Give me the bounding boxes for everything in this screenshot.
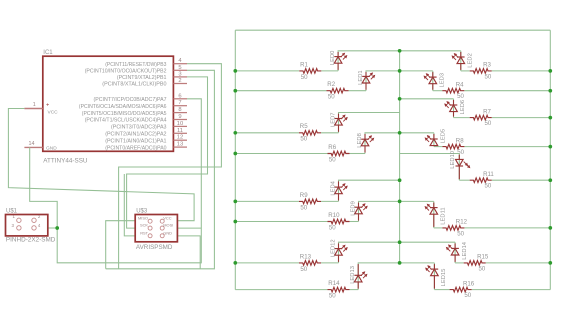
svg-text:(PCINT3/T0/ADC3)PA3: (PCINT3/T0/ADC3)PA3 — [111, 125, 167, 131]
LED LED3 — [429, 77, 437, 84]
junction on left bus at y=153.5 — [233, 152, 237, 156]
svg-text:R16: R16 — [463, 280, 475, 287]
pin 2 stub — [173, 83, 187, 85]
svg-text:LED7: LED7 — [330, 112, 336, 127]
LED LED0 — [334, 57, 342, 64]
svg-text:3: 3 — [178, 71, 181, 77]
wire LED2 vertical — [460, 51, 462, 71]
svg-text:PINHD-2X2-SMD: PINHD-2X2-SMD — [6, 237, 56, 244]
svg-text:R11: R11 — [483, 171, 494, 178]
svg-text:LED9: LED9 — [350, 201, 356, 216]
svg-text:(PCINT10/INT0/OC0A/CKOUT)PB2: (PCINT10/INT0/OC0A/CKOUT)PB2 — [85, 69, 167, 75]
junction on center bus at y=98.8 — [398, 97, 402, 101]
wire LED12 top to bus — [339, 242, 400, 263]
svg-text:LED4: LED4 — [330, 180, 336, 195]
svg-text:LED13: LED13 — [350, 266, 356, 284]
svg-text:50: 50 — [300, 266, 307, 273]
wire R11 to right bus — [492, 179, 551, 181]
junction on left bus at y=262.9 — [233, 261, 237, 265]
junction on right bus at y=70.9 — [548, 69, 552, 73]
pin 4 stub — [173, 63, 187, 65]
svg-text:11: 11 — [177, 128, 183, 134]
svg-text:7: 7 — [178, 100, 181, 106]
svg-text:LED1: LED1 — [358, 70, 364, 85]
wire LED10 to R11 — [459, 179, 469, 181]
svg-text:50: 50 — [485, 120, 492, 127]
wire LED15 vertical — [433, 263, 435, 290]
wire GND / pin6 net — [30, 99, 202, 263]
wire LED3 vertical — [432, 71, 434, 91]
svg-text:LED6: LED6 — [460, 100, 466, 115]
wire pin3 to SCK — [127, 77, 208, 228]
op-amp/IC U1: IC1 ATTINY44-SSU box — [43, 56, 174, 151]
junction on left bus at y=90.7 — [233, 89, 237, 93]
LED LED9 — [355, 207, 363, 214]
wire R2 to LED1 — [349, 90, 367, 92]
svg-text:50: 50 — [300, 136, 307, 143]
resistor R10 — [328, 219, 350, 224]
resistor R12 — [442, 226, 464, 231]
pin 14 GND stub — [24, 146, 42, 148]
junction on left bus at y=70.9 — [233, 69, 237, 73]
resistor R3 — [470, 69, 492, 74]
svg-text:50: 50 — [457, 93, 464, 100]
wire LED1 top to bus — [366, 71, 400, 91]
wire center bus — [399, 51, 401, 263]
wire pin4 net — [119, 64, 222, 269]
svg-text:R8: R8 — [456, 137, 464, 144]
LED LED14 — [451, 248, 459, 255]
wire GND row right — [177, 236, 200, 269]
wire R13 to LED12 — [321, 262, 339, 264]
svg-text:(PCINT9/XTAL2)PB1: (PCINT9/XTAL2)PB1 — [117, 75, 167, 81]
connector U$3 AVRISPSMD — [135, 215, 177, 242]
svg-text:LED14: LED14 — [462, 241, 468, 260]
LED LED8 — [361, 139, 369, 146]
svg-text:LED11: LED11 — [441, 207, 447, 224]
svg-text:SCK: SCK — [140, 223, 148, 228]
pin 6 stub — [173, 98, 187, 100]
svg-text:LED8: LED8 — [357, 133, 363, 148]
svg-text:VCC: VCC — [163, 215, 171, 220]
svg-text:R10: R10 — [328, 212, 340, 219]
LED LED6 — [450, 105, 458, 112]
svg-text:GND: GND — [46, 146, 57, 152]
svg-text:R14: R14 — [328, 280, 340, 287]
wire LED4 top to bus — [339, 180, 400, 201]
wire feed to LED15 — [400, 262, 435, 264]
svg-text:5: 5 — [178, 65, 181, 71]
wire R4 to right bus — [464, 90, 550, 92]
svg-text:50: 50 — [464, 292, 471, 299]
svg-text:LED5: LED5 — [441, 129, 447, 144]
wire feed to LED5 — [400, 132, 434, 134]
svg-text:(PCINT1/AIN0/ADC1)PA1: (PCINT1/AIN0/ADC1)PA1 — [105, 138, 166, 144]
junction on left bus at y=201.4 — [233, 200, 237, 204]
junction on right bus at y=146.6 — [548, 145, 552, 149]
wire LED14 vertical — [454, 242, 456, 263]
wire RST stub — [124, 174, 135, 236]
wire MOSI stub — [177, 227, 201, 229]
resistor R4 — [442, 88, 464, 93]
wire LED14 to R15 — [455, 262, 464, 264]
wire LED0 top to bus — [338, 51, 400, 71]
junction on right bus at y=117.6 — [548, 116, 552, 120]
junction on right bus at y=262.9 — [548, 261, 552, 265]
resistor R16 — [450, 287, 472, 292]
svg-text:IC1: IC1 — [43, 50, 53, 56]
svg-text:R2: R2 — [327, 81, 335, 88]
LED LED7 — [335, 119, 343, 126]
svg-text:(PCINT7/ICP/OC0B/ADC7)PA7: (PCINT7/ICP/OC0B/ADC7)PA7 — [94, 97, 167, 103]
junction on center bus at y=70.9 — [398, 69, 402, 73]
resistor R8 — [442, 144, 464, 149]
junction on center bus at y=50.8 — [398, 49, 402, 53]
LED LED1 — [362, 76, 370, 83]
wire R16 to right bus — [472, 289, 551, 291]
svg-text:2: 2 — [178, 78, 181, 84]
svg-text:R7: R7 — [483, 108, 491, 115]
svg-text:50: 50 — [457, 149, 464, 156]
wire U$1 pin4 — [48, 227, 57, 229]
LED LED13 — [354, 275, 362, 282]
wire feed to LED14 — [400, 241, 456, 243]
wire R12 to right bus — [464, 227, 550, 229]
pin 5 stub — [173, 69, 187, 71]
svg-text:(PCINT6/OC1A/SDA/MOSI/ADC6)PA6: (PCINT6/OC1A/SDA/MOSI/ADC6)PA6 — [79, 104, 167, 110]
pin 7 stub — [173, 105, 187, 107]
wire top bus — [235, 29, 550, 31]
connector U$1 PINHD-2X2-SMD — [6, 215, 48, 236]
wire LED15 to R16 — [434, 289, 449, 291]
svg-text:1: 1 — [33, 102, 36, 108]
svg-text:LED12: LED12 — [330, 239, 336, 257]
wire row R14 — [235, 289, 327, 291]
resistor R2 — [327, 88, 349, 93]
junction on left bus at y=221.5 — [233, 220, 237, 224]
wire LED10 vertical — [458, 154, 460, 181]
pin 13 stub — [173, 146, 187, 148]
wire row R5 — [235, 132, 299, 134]
junction on right bus at y=227.9 — [548, 226, 552, 230]
LED LED2 — [457, 57, 465, 64]
LED LED10 (flipped) — [456, 159, 464, 166]
svg-text:LED10: LED10 — [450, 151, 456, 169]
svg-text:MISO: MISO — [138, 215, 148, 220]
svg-text:(PCINT11/RESET/DW)PB3: (PCINT11/RESET/DW)PB3 — [105, 62, 167, 68]
resistor R14 — [328, 287, 350, 292]
svg-text:50: 50 — [328, 94, 335, 101]
wire row R13 — [235, 262, 299, 264]
resistor R13 — [299, 261, 321, 266]
wire row R9 — [235, 200, 299, 202]
wire row R1 — [235, 70, 299, 72]
svg-text:GND: GND — [163, 230, 172, 235]
svg-text:9: 9 — [178, 114, 181, 120]
svg-text:6: 6 — [178, 93, 181, 99]
resistor R5 — [299, 131, 321, 136]
svg-text:50: 50 — [479, 265, 486, 272]
svg-text:LED15: LED15 — [441, 269, 447, 287]
wire VCC net — [8, 109, 194, 221]
svg-text:50: 50 — [485, 183, 492, 190]
wire feed to LED2 — [400, 50, 461, 52]
pin 11 stub — [173, 132, 187, 134]
svg-text:50: 50 — [485, 73, 492, 80]
svg-text:8: 8 — [178, 107, 181, 113]
wire R15 to right bus — [486, 262, 551, 264]
svg-text:13: 13 — [177, 142, 183, 148]
resistor R6 — [328, 151, 350, 156]
pin 9 stub — [173, 119, 187, 121]
svg-text:MOSI: MOSI — [163, 223, 173, 228]
svg-text:R1: R1 — [300, 61, 308, 68]
wire LED13 top to bus — [358, 263, 399, 290]
svg-text:AVRISPSMD: AVRISPSMD — [136, 244, 173, 251]
pin 3 stub — [173, 76, 187, 78]
wire LED6 vertical — [453, 99, 455, 118]
svg-text:50: 50 — [457, 230, 464, 237]
svg-text:50: 50 — [329, 156, 336, 163]
wire R8 to right bus — [464, 146, 550, 148]
svg-text:R9: R9 — [300, 192, 308, 199]
wire R1 to LED0 — [321, 70, 338, 72]
svg-text:(PCINT8/XTAL1/CLKI)PB0: (PCINT8/XTAL1/CLKI)PB0 — [102, 82, 167, 88]
svg-text:LED3: LED3 — [440, 73, 446, 88]
resistor R9 — [299, 199, 321, 204]
wire LED2 to R3 — [461, 70, 470, 72]
wire MISO net — [106, 221, 136, 269]
LED LED11 — [430, 208, 438, 215]
svg-text:VCC: VCC — [48, 109, 59, 115]
wire LED5 to R8 — [434, 146, 443, 148]
svg-text:ATTINY44-SSU: ATTINY44-SSU — [43, 157, 88, 164]
wire R14 to LED13 — [350, 289, 359, 291]
pin 8 stub — [173, 112, 187, 114]
svg-text:50: 50 — [329, 293, 336, 300]
pin 12 stub — [173, 139, 187, 141]
wire pin5 net / bottom run — [106, 70, 215, 268]
svg-text:R4: R4 — [456, 82, 464, 89]
svg-text:(PCINT4/T1/SCL/USCK/ADC4)PA4: (PCINT4/T1/SCL/USCK/ADC4)PA4 — [85, 118, 167, 124]
svg-text:12: 12 — [177, 135, 183, 141]
svg-text:+: + — [46, 103, 49, 109]
svg-text:LED0: LED0 — [330, 51, 336, 66]
wire LED5 vertical — [433, 133, 435, 147]
svg-text:(PCINT0/AREF/ADC0)PA0: (PCINT0/AREF/ADC0)PA0 — [105, 145, 167, 151]
wire R3 to right bus — [492, 70, 551, 72]
wire LED9 top to bus — [359, 201, 400, 221]
wire feed to LED3 — [400, 70, 433, 72]
wire row R10 — [235, 221, 327, 223]
junction on center bus at y=132.8 — [398, 131, 402, 135]
resistor R1 — [299, 69, 321, 74]
LED LED5 — [430, 139, 438, 146]
svg-text:R6: R6 — [328, 144, 336, 151]
pin 1 VCC stub — [24, 108, 42, 110]
junction on center bus at y=262.9 — [398, 261, 402, 265]
wire R5 to LED7 — [321, 132, 339, 134]
wire LED6 to R7 — [454, 117, 470, 119]
wire LED7 top to bus — [339, 113, 400, 133]
svg-text:RST: RST — [140, 230, 148, 235]
junction U$1 pin4 — [55, 226, 59, 230]
svg-text:R13: R13 — [300, 253, 312, 260]
wire LED8 top to bus — [365, 133, 400, 154]
svg-text:14: 14 — [29, 141, 35, 147]
wire feed to LED11 — [400, 200, 434, 202]
wire row R2 — [235, 90, 326, 92]
LED LED12 — [335, 249, 343, 256]
svg-text:(PCINT5/OC1B/MISO/DO/ADC5)PA5: (PCINT5/OC1B/MISO/DO/ADC5)PA5 — [82, 111, 167, 117]
svg-text:R12: R12 — [456, 219, 468, 226]
resistor R7 — [470, 115, 492, 120]
wire R9 to LED4 — [321, 200, 339, 202]
junction on center bus at y=180.2 — [398, 178, 402, 182]
wire LED11 to R12 — [434, 227, 443, 229]
svg-text:50: 50 — [300, 204, 307, 211]
resistor R15 — [464, 261, 486, 266]
wire LED11 vertical — [433, 201, 435, 228]
wire row R6 — [235, 153, 327, 155]
wire left bus — [234, 30, 236, 289]
LED LED4 — [335, 187, 343, 194]
wire right bus — [549, 30, 551, 289]
svg-text:R5: R5 — [300, 123, 308, 130]
junction on right bus at y=180.2 — [548, 178, 552, 182]
junction on right bus at y=90.7 — [548, 89, 552, 93]
junction on left bus at y=132.8 — [233, 131, 237, 135]
svg-text:LED2: LED2 — [468, 53, 474, 68]
svg-text:50: 50 — [301, 74, 308, 81]
junction on center bus at y=201.4 — [398, 200, 402, 204]
svg-text:R3: R3 — [483, 62, 491, 69]
junction on center bus at y=242.2 — [398, 240, 402, 244]
svg-text:R15: R15 — [477, 254, 489, 261]
svg-text:(PCINT2/AIN1/ADC2)PA2: (PCINT2/AIN1/ADC2)PA2 — [105, 132, 166, 138]
LED LED15 — [431, 269, 439, 276]
svg-text:10: 10 — [177, 121, 183, 127]
wire R10 to LED9 — [350, 221, 359, 223]
wire R7 to right bus — [492, 117, 551, 119]
wire feed to LED6 — [400, 98, 454, 100]
resistor R11 — [470, 178, 492, 183]
svg-text:50: 50 — [329, 224, 336, 231]
wire LED3 to R4 — [433, 90, 443, 92]
pin 10 stub — [173, 125, 187, 127]
wire R6 to LED8 — [350, 153, 366, 155]
svg-text:U$3: U$3 — [136, 209, 148, 215]
wire feed to LED10 — [400, 153, 460, 155]
